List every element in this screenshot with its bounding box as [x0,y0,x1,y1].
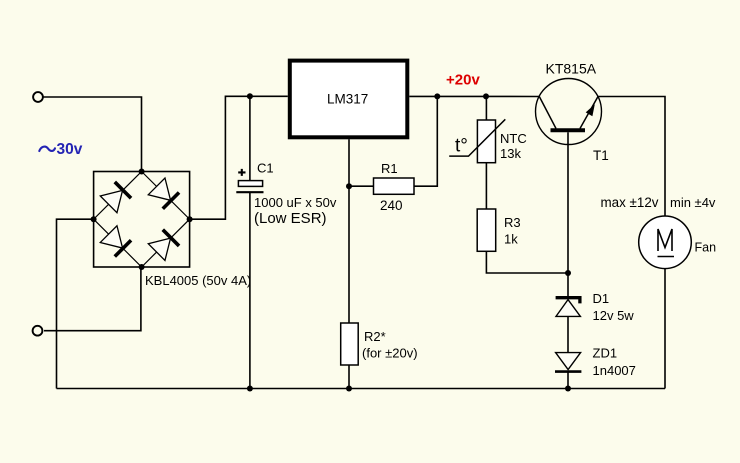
resistor R3 [477,209,496,251]
wire T1 base down [567,132,569,297]
wire emitter to fan [598,97,665,217]
svg-text:min ±4v: min ±4v [670,195,716,210]
svg-text:Fan: Fan [695,241,717,255]
wire NTC top lead [485,96,487,120]
zener D1 cathode bar [556,298,580,304]
resistor R2 [341,323,359,365]
capacitor C1 plus sign [238,169,245,176]
diode ZD1 cathode bar [555,370,581,373]
svg-text:t°: t° [455,136,468,157]
wire LM317 adj pin [348,139,350,186]
svg-text:1k: 1k [504,232,518,247]
node bridge right [187,216,193,222]
transistor T1 base bar [551,128,586,132]
wire R1 left lead [349,185,374,187]
node bridge left [91,216,97,222]
svg-text:R1: R1 [381,161,398,176]
wire R1 right lead up to rail [414,96,437,186]
bridge rectifier KBL4005 square [94,172,190,268]
bridge diode D-d (bottom to right) [148,229,179,260]
node rail ZD1 [565,386,571,392]
wire top input to bridge top [43,97,142,171]
svg-text:max ±12v: max ±12v [601,195,659,210]
bridge diode D-a (left to top) [100,182,131,213]
svg-text:1000 uF x 50v: 1000 uF x 50v [254,195,337,210]
svg-text:T1: T1 [593,148,609,163]
bridge diode D-c (left to bottom) [100,226,131,257]
svg-text:30v: 30v [57,141,83,158]
terminal top input [33,92,43,102]
node NTC tap [483,93,489,99]
wire C1 top lead [249,96,251,180]
svg-text:R3: R3 [504,215,521,230]
svg-text:1n4007: 1n4007 [593,363,636,378]
node base junction [565,270,571,276]
zener D1 triangle [556,300,580,317]
diode ZD1 triangle [556,353,581,370]
svg-text:(Low ESR): (Low ESR) [254,210,327,227]
wire bottom input to bridge bottom [44,268,141,331]
wire bridge left to bottom rail [57,219,94,388]
resistor R1 [374,178,415,194]
capacitor C1 bottom plate [236,191,263,193]
node bridge top [139,169,145,175]
node rail R2 [346,386,352,392]
regulator U1 LM317 box [290,61,408,138]
svg-text:KBL4005 (50v 4A): KBL4005 (50v 4A) [145,273,251,288]
transistor T1 collector line [539,97,556,129]
transistor T1 emitter line [580,97,598,129]
svg-text:LM317: LM317 [327,92,368,107]
wire C1 bottom lead to rail [249,192,251,388]
motor M underline [658,256,675,258]
node rail C1 [247,386,253,392]
wire D1 to ZD1 [567,316,569,352]
svg-text:12v 5w: 12v 5w [593,308,635,323]
node bridge bottom [139,264,145,270]
terminal bottom input [33,326,43,336]
wire LM317 output [409,95,539,97]
svg-text:+20v: +20v [446,72,480,89]
capacitor C1 top plate [238,181,262,187]
label ~30v [39,141,82,158]
wire R2 bottom lead [348,365,350,389]
motor M letter [658,229,672,251]
svg-text:240: 240 [380,198,403,213]
motor M1 fan circle [639,216,692,269]
wire R3 bottom to base node [486,251,568,273]
wire NTC to R3 [485,163,487,209]
svg-text:R2*: R2* [364,329,386,344]
bridge inner diamond [94,172,190,268]
svg-text:KT815A: KT815A [546,61,597,77]
bridge diode D-b (top to right) [148,178,179,209]
svg-text:D1: D1 [593,291,610,306]
thermistor NTC diagonal [449,119,505,156]
svg-text:13k: 13k [500,146,521,161]
wire R2 top lead [348,186,350,323]
svg-text:C1: C1 [257,161,274,176]
thermistor NTC body [477,120,495,163]
transistor T1 emitter arrow [586,104,595,116]
wire bridge right to LM317 input [190,96,288,219]
node adj junction [346,183,352,189]
node R1 to rail [434,93,440,99]
svg-text:ZD1: ZD1 [593,346,618,361]
wire bottom rail [57,388,666,390]
svg-text:NTC: NTC [500,131,527,146]
node C1 tap [247,93,253,99]
transistor T1 circle [536,79,602,145]
wire ZD1 to rail [567,372,569,389]
wire fan bottom lead [664,269,666,389]
svg-text:(for ±20v): (for ±20v) [362,346,418,361]
